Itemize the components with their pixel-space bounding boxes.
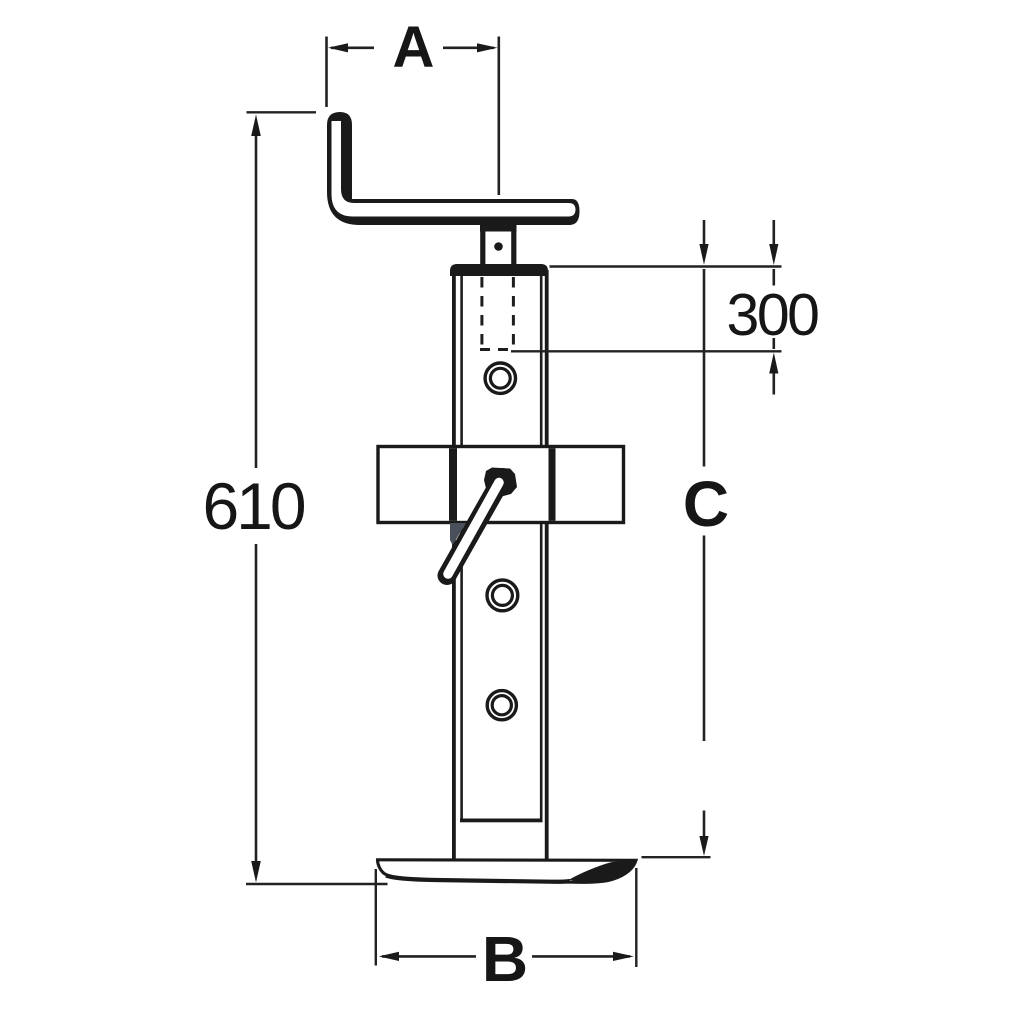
dim 610 lower line — [255, 544, 258, 864]
dim B left arrowhead — [379, 952, 399, 961]
hole 1 outer ring — [485, 363, 515, 393]
dim C top tail — [703, 220, 706, 246]
dim 610 bottom arrowhead — [251, 861, 261, 883]
dim A right arrowhead — [477, 43, 498, 52]
dim C lower segment — [703, 811, 706, 839]
hidden inner tube dashed right — [512, 277, 515, 349]
dim 300 lower arrowhead — [769, 353, 778, 374]
dim 300 upper arrowhead — [769, 244, 778, 265]
hole 3 outer ring — [487, 691, 516, 720]
dim A left arrowhead — [328, 43, 348, 52]
foot plate body — [378, 860, 637, 882]
foot level extension line — [642, 856, 711, 858]
foot plate bottom edge thick line — [386, 876, 570, 882]
tube top level extension line — [550, 265, 782, 267]
foot plate dark swoosh — [569, 860, 636, 882]
shading wedge below bracket — [450, 523, 466, 545]
handle rod white core — [448, 483, 499, 575]
tube right bar through bracket — [549, 448, 556, 521]
dim B right extension line — [635, 868, 637, 967]
tube right outer edge — [545, 270, 549, 860]
outer tube top band — [450, 264, 548, 276]
dim 300 lower overshoot — [772, 338, 775, 349]
hole 2 inner ring — [492, 585, 512, 605]
tube left inner line — [460, 276, 463, 821]
stem pivot dot — [494, 242, 503, 251]
stem between plate and tube — [483, 224, 514, 268]
svg-text:610: 610 — [202, 469, 304, 543]
svg-text:300: 300 — [727, 282, 819, 348]
dim A right extension line — [497, 37, 500, 196]
hole 1 inner ring — [490, 368, 510, 388]
hidden inner tube dashed left — [480, 277, 483, 349]
hole 2 outer ring — [487, 580, 518, 611]
tube left bar through bracket — [449, 448, 457, 521]
inner tube bottom edge — [460, 819, 543, 823]
hidden inner tube dashed bottom — [480, 348, 513, 351]
dim 610 bottom extension line — [246, 883, 388, 885]
L-bracket top plate (black outline body) — [327, 112, 580, 225]
svg-text:A: A — [393, 15, 435, 80]
tube right inner line — [540, 276, 543, 821]
dim B right line — [532, 955, 630, 958]
stem top weld band — [480, 222, 517, 232]
dim 300 lower extension line — [511, 350, 782, 352]
hole 3 inner ring — [492, 696, 511, 715]
dim A left line — [331, 46, 374, 49]
clamp bracket — [378, 447, 624, 523]
dim A right line — [443, 46, 494, 49]
dim C upper segment — [703, 269, 706, 467]
dim C middle segment — [703, 536, 706, 742]
dim B left line — [382, 955, 476, 958]
L-bracket top plate (white inner band) — [332, 121, 576, 217]
dim 300 upper tail — [772, 220, 775, 246]
dim 610 top extension line — [247, 111, 317, 113]
dim B left extension line — [375, 869, 377, 966]
hex bolt head — [484, 468, 517, 498]
dim C bottom arrowhead — [699, 836, 708, 856]
dim 610 top arrowhead — [251, 115, 261, 137]
dim 300 upper overshoot — [772, 269, 775, 286]
dim B right arrowhead — [613, 952, 634, 961]
handle rod outline — [447, 478, 503, 576]
dim A left extension line — [325, 37, 328, 108]
tube left outer edge — [452, 270, 456, 860]
dim 300 lower tail — [772, 373, 775, 395]
dim C top arrowhead — [699, 244, 708, 265]
dim 610 upper line — [255, 135, 258, 468]
svg-text:C: C — [683, 468, 729, 540]
svg-text:B: B — [482, 923, 528, 995]
